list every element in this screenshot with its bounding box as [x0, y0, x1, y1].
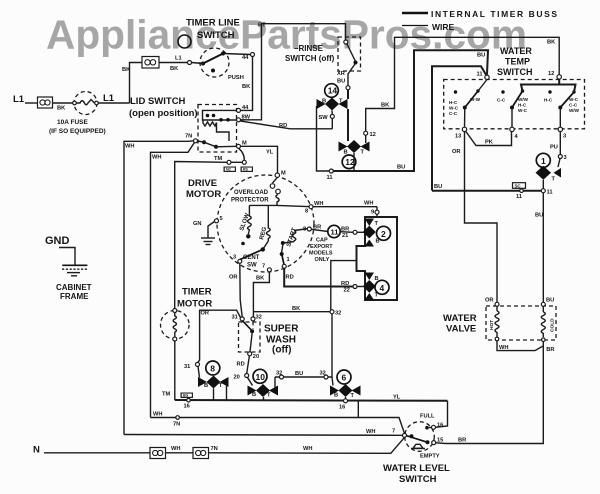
- svg-text:16: 16: [437, 423, 443, 429]
- svg-text:H-C: H-C: [518, 103, 527, 108]
- node M (motor): [275, 173, 279, 177]
- connector CO (L1 line): [38, 97, 53, 108]
- svg-text:11: 11: [331, 228, 339, 237]
- node 13: [462, 127, 466, 131]
- node XR/BU terminal: [346, 86, 350, 90]
- lid switch internal wiring: [198, 110, 237, 148]
- svg-text:BK: BK: [547, 40, 556, 46]
- riser joining 7N buss to TM buss: [357, 401, 359, 418]
- svg-text:BR: BR: [546, 347, 554, 353]
- inner BU riser to water temp 11: [432, 66, 486, 190]
- wire N to water level switch 7: [209, 437, 405, 453]
- fuse F1 10A (dashed circle): [49, 92, 106, 136]
- svg-text:L1: L1: [13, 94, 25, 105]
- svg-text:WH: WH: [499, 345, 508, 351]
- node 8/BR (motor, start cap): [307, 227, 311, 231]
- svg-text:32: 32: [335, 311, 341, 317]
- svg-text:TM: TM: [162, 392, 170, 398]
- svg-text:W-C: W-C: [449, 106, 459, 111]
- wire RD from motor 1 to contact 4: [284, 268, 353, 286]
- wire YL lid M to motor M: [241, 146, 278, 173]
- svg-text:GN: GN: [193, 221, 202, 227]
- svg-text:WH: WH: [364, 201, 373, 207]
- svg-text:VALVE: VALVE: [446, 324, 476, 335]
- legend: internal timer buss wire: [402, 9, 557, 32]
- svg-text:W/W: W/W: [518, 97, 529, 102]
- svg-text:WH: WH: [153, 412, 162, 418]
- svg-text:2: 2: [381, 229, 386, 239]
- contact 14 flag (B-diamond-T): [317, 98, 348, 111]
- TM buss (internal): [175, 399, 448, 402]
- node 16 on TM buss: [344, 399, 348, 403]
- node 8/WH (motor): [309, 205, 313, 209]
- svg-text:PK: PK: [485, 140, 494, 146]
- wire down to flag 14: [347, 90, 349, 99]
- svg-text:C-C: C-C: [569, 103, 578, 108]
- wire OR from motor 3 to super wash 31: [240, 263, 242, 317]
- svg-text:BK: BK: [170, 66, 179, 72]
- svg-text:RS: RS: [243, 168, 249, 172]
- timer contact 4 (circled): [375, 280, 389, 294]
- svg-text:8: 8: [303, 227, 306, 233]
- wire 8W up and over to rinse switch (RT): [241, 24, 346, 120]
- svg-text:44: 44: [242, 105, 249, 111]
- svg-text:16: 16: [184, 404, 190, 410]
- svg-text:L1: L1: [175, 56, 182, 62]
- wire WH motor to timer 9: [313, 206, 377, 208]
- svg-text:SUPER: SUPER: [264, 324, 299, 335]
- svg-text:BU: BU: [546, 298, 554, 304]
- node 11 on buss: [329, 169, 333, 173]
- svg-text:W-C: W-C: [518, 108, 528, 113]
- connector box RS: [241, 167, 254, 173]
- svg-text:TIMER LINE: TIMER LINE: [186, 18, 240, 29]
- contact 6 flag: [330, 377, 361, 401]
- slow winding: [239, 205, 251, 238]
- contact 10 flag: [248, 377, 279, 401]
- lid switch SW1 (dashed box): [198, 105, 237, 153]
- svg-text:RT: RT: [258, 23, 266, 29]
- wire cap to terminal 21: [340, 231, 353, 234]
- svg-text:7N: 7N: [185, 134, 192, 140]
- svg-text:OVERLOAD: OVERLOAD: [234, 190, 269, 196]
- svg-text:(open position): (open position): [129, 108, 198, 119]
- svg-text:SWITCH: SWITCH: [399, 474, 437, 485]
- capacitor 11 (circled, export models): [328, 225, 340, 237]
- svg-text:BK: BK: [57, 106, 66, 112]
- svg-text:TIMER: TIMER: [182, 287, 212, 298]
- node 1 (motor): [282, 264, 286, 268]
- node 15 empty: [432, 441, 436, 445]
- motor internal junction buss: [249, 205, 311, 206]
- wire OR from 13 down to water valve: [465, 132, 498, 302]
- node 9: [375, 210, 379, 214]
- svg-text:WH: WH: [152, 155, 161, 161]
- wire WH bottom buss to water level 7: [124, 434, 403, 437]
- svg-text:3: 3: [563, 134, 566, 140]
- svg-text:T: T: [267, 393, 271, 399]
- node 5 (motor gnd): [215, 219, 219, 223]
- wire fuse to riser: [98, 102, 129, 104]
- svg-text:COLD: COLD: [550, 318, 556, 332]
- svg-text:OR: OR: [201, 311, 210, 317]
- wire BR down to water level switch: [446, 346, 544, 444]
- node hot bottom: [495, 337, 499, 341]
- svg-text:T: T: [375, 221, 379, 227]
- svg-text:1: 1: [541, 156, 546, 166]
- wire diamond 12 down to bus: [353, 153, 355, 171]
- wire TM from lid M down to TM terminals: [239, 148, 245, 160]
- wire rinse switch down to XR terminal: [348, 64, 355, 86]
- node 11 (valve riser): [541, 189, 545, 193]
- svg-text:BU: BU: [535, 213, 543, 219]
- node 16 full: [432, 425, 436, 429]
- connector box NC: [224, 167, 237, 173]
- svg-text:SW: SW: [319, 115, 329, 121]
- svg-text:T: T: [552, 177, 556, 183]
- svg-text:B: B: [334, 393, 338, 399]
- svg-text:B: B: [204, 383, 208, 389]
- svg-text:12: 12: [370, 132, 376, 138]
- svg-text:31: 31: [232, 315, 238, 321]
- svg-text:9: 9: [371, 210, 374, 216]
- connector BG box on TM buss: [181, 393, 194, 399]
- svg-text:LID SWITCH: LID SWITCH: [130, 96, 186, 107]
- svg-text:MOTOR: MOTOR: [186, 189, 221, 200]
- svg-text:SWITCH (off): SWITCH (off): [285, 54, 335, 63]
- wire N to connector: [44, 452, 150, 454]
- timer contact 10 (circled): [253, 369, 267, 383]
- node 7 (motor): [267, 268, 271, 272]
- svg-text:8: 8: [210, 364, 215, 374]
- svg-text:7: 7: [392, 429, 395, 435]
- svg-text:3: 3: [564, 155, 567, 161]
- node cold bottom / BR: [542, 338, 546, 342]
- overload protector: [231, 177, 280, 205]
- svg-text:PU: PU: [550, 145, 558, 151]
- cold valve solenoid: [541, 306, 555, 337]
- centrifugal switch: [240, 242, 265, 269]
- svg-text:BU: BU: [337, 79, 345, 85]
- svg-text:RD: RD: [286, 275, 294, 281]
- wire 3 to T triangle: [558, 159, 560, 168]
- internal buss from 12 to sections: [521, 79, 559, 91]
- svg-text:PROTECTOR: PROTECTOR: [231, 198, 269, 204]
- svg-text:H-C: H-C: [449, 100, 458, 105]
- svg-text:MOTOR: MOTOR: [177, 299, 212, 310]
- timer contact 14 (circled): [325, 84, 339, 98]
- svg-text:32: 32: [320, 371, 326, 377]
- wire SW terminal down to RD line: [331, 118, 333, 128]
- wire BK branch to contact 6: [253, 312, 332, 377]
- regular winding: [259, 205, 270, 249]
- svg-text:YL: YL: [393, 395, 401, 401]
- wire 7N buss (WH2): [151, 418, 405, 434]
- timer motor TM (dashed circle with coil): [161, 287, 213, 342]
- node OR valve: [495, 302, 499, 306]
- node terminal 12 (timer): [364, 131, 368, 135]
- svg-text:WH: WH: [171, 446, 180, 452]
- node 22: [353, 285, 357, 289]
- svg-text:C-C: C-C: [497, 98, 506, 103]
- svg-text:BU: BU: [295, 371, 303, 377]
- timer contact 2 (circled): [377, 226, 391, 240]
- svg-text:SC: SC: [515, 183, 522, 188]
- wire timer motor to TM buss: [174, 341, 176, 400]
- svg-text:BR: BR: [313, 225, 321, 231]
- svg-text:BG: BG: [183, 394, 189, 398]
- svg-text:TEMP: TEMP: [505, 57, 530, 67]
- svg-text:31: 31: [184, 364, 190, 370]
- svg-text:WH: WH: [303, 446, 312, 452]
- svg-text:SW: SW: [247, 263, 257, 269]
- svg-text:EMPTY: EMPTY: [420, 454, 440, 460]
- node 12 water temp: [557, 75, 561, 79]
- svg-text:BK: BK: [381, 103, 390, 109]
- svg-text:4: 4: [380, 283, 385, 293]
- svg-text:CABINET: CABINET: [56, 283, 92, 292]
- wire YL down to water level FULL: [436, 401, 448, 428]
- wire WH hot bottom to BR junction: [497, 341, 543, 351]
- svg-text:H-C: H-C: [544, 98, 553, 103]
- svg-text:BK: BK: [122, 67, 131, 73]
- svg-text:44: 44: [242, 55, 249, 61]
- contact 2 flag (T-diamond-B vertical): [363, 219, 380, 247]
- svg-text:12: 12: [548, 71, 554, 77]
- wire RD from lid switch to rinse SW terminal: [241, 121, 333, 129]
- svg-text:20: 20: [253, 354, 259, 360]
- svg-text:16: 16: [339, 405, 345, 411]
- svg-text:BU: BU: [477, 53, 485, 59]
- node 20 (timer contact 10): [245, 374, 249, 378]
- svg-text:3: 3: [233, 255, 236, 261]
- connector CO (timer line): [142, 57, 159, 69]
- svg-text:8: 8: [305, 209, 308, 215]
- svg-text:T: T: [361, 150, 365, 156]
- svg-text:BK: BK: [256, 276, 265, 282]
- wire rinse T down to flag 12: [347, 109, 349, 141]
- connector SC box: [513, 183, 526, 189]
- svg-text:W/W: W/W: [569, 108, 580, 113]
- svg-text:W-W: W-W: [470, 97, 481, 102]
- timer contact 8 (circled): [206, 361, 220, 375]
- svg-text:BU: BU: [397, 165, 405, 171]
- wire WH2 from lid 7N to inner riser: [151, 142, 195, 417]
- svg-text:PUSH: PUSH: [228, 75, 244, 81]
- svg-text:TM: TM: [214, 156, 222, 162]
- svg-text:WH: WH: [366, 429, 375, 435]
- node 4: [510, 127, 514, 131]
- contact 4 flag (B-diamond-T vertical): [363, 273, 379, 301]
- svg-text:20: 20: [234, 375, 240, 381]
- wire WH from lid 7N to left riser: [124, 141, 194, 435]
- svg-text:7N: 7N: [173, 422, 180, 428]
- svg-text:HOT: HOT: [489, 320, 495, 330]
- timer contact 1 (circled): [536, 153, 550, 167]
- svg-text:SWITCH: SWITCH: [497, 67, 533, 77]
- svg-text:BR: BR: [458, 438, 466, 444]
- timer contact block 2/4 (solid box): [357, 217, 398, 300]
- node L1 terminal of timer line switch: [188, 61, 192, 65]
- svg-text:OR: OR: [452, 149, 461, 155]
- svg-text:5: 5: [220, 216, 223, 222]
- svg-text:CAP: CAP: [316, 238, 328, 244]
- svg-text:BK: BK: [292, 306, 301, 312]
- svg-text:11: 11: [327, 175, 333, 181]
- ground GND: [45, 235, 92, 301]
- timer line switch (push, dashed circle): [178, 18, 244, 82]
- svg-text:T: T: [339, 99, 343, 105]
- svg-text:22: 22: [344, 288, 350, 294]
- temp switch section 2 (C-C | W/W H-C W-C): [497, 89, 529, 127]
- wire connector to fuse: [53, 102, 75, 104]
- timer contact 6 (circled): [337, 370, 351, 384]
- svg-text:10: 10: [256, 372, 266, 382]
- node BU valve: [541, 302, 545, 306]
- svg-text:7: 7: [262, 264, 265, 270]
- svg-text:13: 13: [455, 134, 461, 140]
- water valve (dashed box): [486, 306, 556, 340]
- svg-text:WATER LEVEL: WATER LEVEL: [383, 463, 450, 474]
- svg-text:(IF SO EQUIPPED): (IF SO EQUIPPED): [49, 128, 106, 135]
- svg-text:T: T: [351, 393, 355, 399]
- svg-text:11: 11: [516, 194, 522, 200]
- start winding: [280, 227, 309, 265]
- node SW terminal under 14: [330, 114, 334, 118]
- svg-text:21: 21: [342, 233, 348, 239]
- wire BU between 32 terminals: [275, 376, 332, 378]
- buss wire 11 to BU riser: [333, 50, 488, 171]
- svg-text:C-C: C-C: [449, 111, 458, 116]
- node 31 (timer contact 8): [196, 362, 200, 366]
- svg-text:MODELS: MODELS: [309, 251, 333, 257]
- contact 8 flag: [198, 366, 229, 400]
- drive motor M1 (dashed circle): [217, 175, 314, 272]
- svg-text:–RINSE: –RINSE: [294, 44, 324, 53]
- hot valve solenoid: [489, 306, 499, 337]
- temp switch section 3 (H-C | W-C C-C W/W): [544, 90, 580, 127]
- rinse switch (dashed box, off): [285, 37, 361, 71]
- wire BK 44 down to lid switch: [241, 57, 253, 111]
- wire from contact block common to 32 junction: [331, 261, 357, 312]
- wire BU down to water valve: [542, 193, 544, 303]
- lid switch terminal 7N: [194, 139, 198, 143]
- lid switch terminal M: [237, 144, 241, 148]
- svg-text:OR: OR: [485, 298, 494, 304]
- svg-text:ONLY: ONLY: [315, 257, 330, 263]
- contact 1 diamond and T flag: [536, 166, 552, 180]
- svg-text:32: 32: [276, 371, 282, 377]
- svg-text:SWITCH: SWITCH: [197, 30, 235, 41]
- svg-text:(off): (off): [272, 345, 291, 356]
- wire switch to terminal 44: [223, 54, 251, 55]
- svg-text:11: 11: [547, 190, 553, 196]
- svg-text:RD: RD: [237, 362, 245, 368]
- connector CO (neutral 2): [193, 448, 209, 459]
- wire BK terminal 12 up to water temp switch 12: [366, 37, 560, 131]
- wire PU from 3 down: [559, 132, 561, 155]
- svg-text:EXPORT: EXPORT: [310, 244, 333, 250]
- svg-text:6: 6: [342, 373, 347, 383]
- svg-text:WIRE: WIRE: [432, 22, 455, 32]
- svg-text:FRAME: FRAME: [60, 292, 89, 301]
- node 11 water temp: [485, 75, 489, 79]
- svg-text:B: B: [252, 392, 256, 398]
- node 3 (lower): [558, 155, 562, 159]
- svg-text:11: 11: [477, 72, 483, 78]
- svg-text:1: 1: [287, 257, 290, 263]
- wire CO to L1 terminal: [159, 62, 188, 64]
- svg-text:M: M: [281, 171, 286, 177]
- svg-text:YL: YL: [266, 150, 274, 156]
- super wash switch (dashed box, off): [232, 315, 300, 361]
- svg-text:FULL: FULL: [420, 414, 435, 420]
- svg-text:WATER: WATER: [500, 46, 532, 56]
- wire BR to capacitor: [311, 229, 328, 231]
- wire WH between connectors: [166, 452, 194, 454]
- svg-text:NC: NC: [226, 168, 232, 172]
- node 3 (motor): [238, 259, 242, 263]
- svg-text:BU: BU: [434, 184, 442, 190]
- wire BK from motor 7 to super wash 32: [253, 272, 269, 317]
- svg-text:BK: BK: [242, 84, 251, 90]
- svg-text:10A FUSE: 10A FUSE: [57, 119, 88, 126]
- timer contact 12 (circled): [342, 155, 356, 169]
- wire diamond 1 down to node 11: [542, 180, 544, 189]
- svg-text:OR: OR: [229, 275, 238, 281]
- svg-text:WATER: WATER: [443, 313, 477, 324]
- connector CO (neutral 1): [150, 448, 166, 459]
- svg-text:WH: WH: [314, 201, 323, 207]
- svg-text:XR: XR: [337, 71, 345, 77]
- contact 12 flag (B-diamond-T): [339, 140, 370, 156]
- node 3: [558, 127, 562, 131]
- wire L1 to connector: [25, 102, 37, 104]
- svg-text:GND: GND: [45, 235, 70, 247]
- svg-text:INTERNAL TIMER BUSS: INTERNAL TIMER BUSS: [431, 9, 557, 19]
- svg-text:RD: RD: [279, 123, 287, 129]
- svg-text:B: B: [322, 99, 326, 105]
- wire B of 14 down to bus 11: [317, 106, 330, 171]
- svg-text:WH: WH: [125, 144, 134, 150]
- svg-text:CENT: CENT: [243, 255, 260, 261]
- temp switch section 1 (H-C/W-C/C-C | W-W): [449, 80, 487, 128]
- lid switch terminal 44: [237, 108, 241, 112]
- water level switch (dashed circle): [383, 414, 450, 486]
- wire PK from 13 to 4: [466, 131, 512, 146]
- svg-text:W-C: W-C: [569, 97, 579, 102]
- lid switch terminal 8W: [237, 118, 241, 122]
- motor ground GN: [193, 221, 215, 245]
- wire RD super wash to contact 10: [247, 356, 250, 374]
- wire terminal 12 down to T of flag 12: [365, 135, 367, 143]
- buss wire SC (internal): [432, 190, 542, 192]
- svg-text:DRIVE: DRIVE: [188, 178, 217, 189]
- svg-text:7N: 7N: [211, 446, 218, 452]
- svg-text:14: 14: [328, 86, 338, 96]
- svg-text:T: T: [219, 383, 223, 389]
- wire TM to timer motor: [175, 162, 227, 309]
- svg-text:32: 32: [256, 315, 262, 321]
- wire riser BK up to timer line: [130, 63, 143, 104]
- wire OR super wash 31 to timer 31: [198, 310, 241, 362]
- svg-text:N: N: [33, 445, 40, 456]
- water temp switch (dashed box): [444, 80, 585, 129]
